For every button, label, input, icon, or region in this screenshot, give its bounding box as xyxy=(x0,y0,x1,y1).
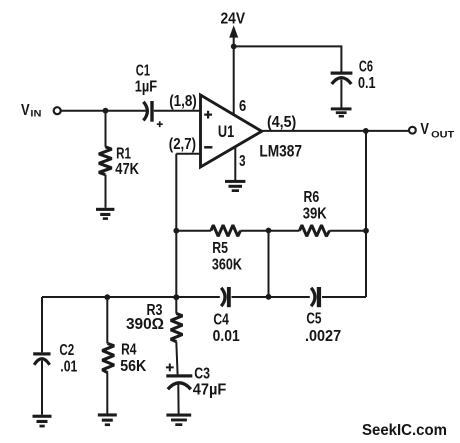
output terminal VOUT xyxy=(409,127,416,134)
wire mid vertical xyxy=(268,231,270,297)
resistor R3 xyxy=(171,313,183,374)
svg-text:V: V xyxy=(420,121,429,138)
svg-text:R5: R5 xyxy=(212,240,228,257)
svg-text:6: 6 xyxy=(239,98,246,115)
wire C6 to ground xyxy=(340,80,342,108)
label C6 value xyxy=(358,59,376,93)
resistor R6 xyxy=(300,225,330,236)
wire left branch to C2 xyxy=(41,297,43,352)
label minus input xyxy=(204,146,212,149)
label VOUT xyxy=(420,121,454,140)
label R6 value xyxy=(303,189,327,222)
capacitor C6 xyxy=(331,72,353,85)
node R4 top junction xyxy=(104,294,110,300)
svg-text:C6: C6 xyxy=(359,59,373,76)
svg-text:C1: C1 xyxy=(136,63,151,80)
label R5 value xyxy=(212,240,242,273)
label C5 value xyxy=(305,311,341,345)
svg-text:U1: U1 xyxy=(218,122,234,141)
svg-text:(4,5): (4,5) xyxy=(267,114,296,131)
svg-text:390Ω: 390Ω xyxy=(126,316,164,333)
svg-text:56K: 56K xyxy=(120,358,146,375)
label R3 value xyxy=(126,302,164,333)
op-amp U1 xyxy=(201,95,262,167)
svg-text:SeekIC.com: SeekIC.com xyxy=(362,422,447,439)
label C3 value xyxy=(193,365,227,398)
label R1 value xyxy=(115,145,139,178)
wire R5 R6 row xyxy=(176,230,366,232)
svg-text:1µF: 1µF xyxy=(135,79,157,96)
svg-text:C2: C2 xyxy=(59,342,74,359)
svg-text:(1,8): (1,8) xyxy=(169,93,197,110)
label C1 value xyxy=(135,63,157,96)
label R4 value xyxy=(120,342,146,376)
pin 3 wire xyxy=(234,146,236,180)
svg-text:47µF: 47µF xyxy=(193,382,227,399)
svg-text:24V: 24V xyxy=(221,10,246,27)
label plus input xyxy=(204,111,212,119)
node input junction xyxy=(103,108,109,114)
node mid junction bottom xyxy=(266,294,272,300)
svg-text:39K: 39K xyxy=(303,205,327,222)
node mid junction top xyxy=(266,228,272,234)
input terminal VIN xyxy=(54,107,61,114)
svg-text:C3: C3 xyxy=(194,365,210,382)
capacitor C2 xyxy=(33,352,50,365)
svg-text:.0027: .0027 xyxy=(305,328,341,345)
ground under R1 xyxy=(96,208,114,220)
svg-text:C5: C5 xyxy=(306,311,321,328)
capacitor C1 xyxy=(143,101,162,127)
resistor R5 xyxy=(211,225,241,236)
ground under C2 xyxy=(33,415,52,428)
ground under C3 xyxy=(166,414,191,427)
node feedback-R5 junction xyxy=(173,228,179,234)
svg-text:0.01: 0.01 xyxy=(213,328,240,345)
svg-text:LM387: LM387 xyxy=(259,141,302,160)
24V supply arrow xyxy=(229,25,238,46)
wire C2 to ground xyxy=(41,361,43,415)
wire C3 to ground xyxy=(177,385,179,414)
svg-text:R6: R6 xyxy=(304,189,320,206)
node 24V rail junction xyxy=(231,44,237,50)
svg-text:3: 3 xyxy=(239,153,245,170)
wire right rail xyxy=(365,131,367,297)
svg-text:V: V xyxy=(21,102,30,119)
svg-text:IN: IN xyxy=(30,108,41,119)
svg-text:0.1: 0.1 xyxy=(358,75,376,92)
ground under C6 xyxy=(331,107,352,117)
wire C1 to op-amp + input xyxy=(154,110,200,112)
svg-text:OUT: OUT xyxy=(431,129,454,140)
svg-text:R4: R4 xyxy=(121,342,137,359)
label VIN xyxy=(21,102,41,119)
wire minus input from feedback xyxy=(176,153,199,155)
node R3 four-way junction xyxy=(173,294,179,300)
node output junction xyxy=(363,128,369,134)
wire input to C1 xyxy=(61,110,146,112)
ground under pin 3 xyxy=(225,180,245,192)
capacitor C4 xyxy=(221,287,231,307)
svg-text:360K: 360K xyxy=(212,256,242,273)
wire 24V rail to C6 xyxy=(234,46,342,71)
wire op-amp output to VOUT xyxy=(262,130,409,132)
ground under R4 xyxy=(98,413,117,426)
svg-text:.01: .01 xyxy=(60,358,77,375)
wire feedback vertical xyxy=(175,154,177,314)
capacitor C5 xyxy=(311,287,321,307)
label C4 value xyxy=(213,311,240,345)
resistor R4 xyxy=(102,297,114,414)
resistor R1 xyxy=(99,111,112,208)
svg-text:47K: 47K xyxy=(115,161,139,178)
svg-text:C4: C4 xyxy=(213,311,229,328)
node right rail R6 junction xyxy=(363,228,369,234)
svg-text:R1: R1 xyxy=(116,145,131,162)
label C2 value xyxy=(59,342,77,375)
pin 6 wire xyxy=(233,46,235,115)
wire bottom row xyxy=(42,296,366,298)
capacitor C3 xyxy=(166,364,192,390)
svg-text:(2,7): (2,7) xyxy=(169,136,196,153)
